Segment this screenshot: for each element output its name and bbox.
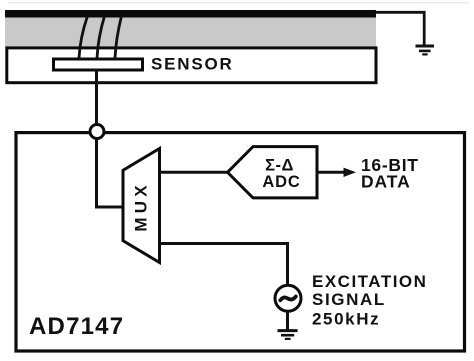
svg-text:SIGNAL: SIGNAL [312, 290, 386, 309]
svg-text:ADC: ADC [262, 173, 300, 191]
svg-text:MUX: MUX [131, 181, 150, 231]
svg-text:Σ-Δ: Σ-Δ [265, 157, 294, 175]
svg-text:EXCITATION: EXCITATION [312, 272, 427, 291]
svg-text:AD7147: AD7147 [29, 313, 124, 340]
svg-text:250kHz: 250kHz [312, 309, 380, 328]
svg-text:DATA: DATA [361, 171, 411, 191]
svg-text:SENSOR: SENSOR [151, 55, 234, 74]
